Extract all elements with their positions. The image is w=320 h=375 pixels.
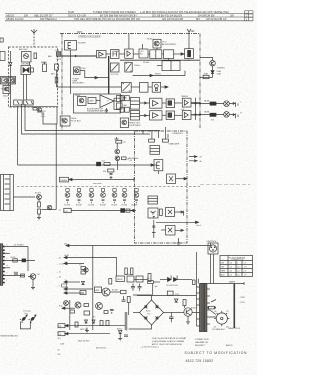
holder transistor 1 — [20, 315, 27, 323]
IF amp 1 — [2, 78, 8, 83]
drop wires from decoder bottom — [158, 131, 160, 139]
svg-text:3-4: 3-4 — [237, 275, 240, 277]
tuner labels — [1, 48, 56, 98]
output jack L — [224, 101, 230, 107]
svg-text:→ 4t: → 4t — [57, 271, 61, 274]
svg-text:— 4 floor RL history's 4: — 4 floor RL history's 4 — [140, 346, 159, 349]
svg-text:STEREO: STEREO — [217, 68, 225, 70]
tuner box bottom bus — [10, 106, 57, 108]
svg-text:BC238: BC238 — [65, 205, 71, 207]
input cap box R2 — [125, 107, 130, 112]
core lines — [202, 283, 204, 332]
bridge top wire — [133, 295, 152, 300]
svg-text:150: 150 — [147, 278, 150, 280]
feed wires into AF — [114, 98, 120, 110]
19kHz lamp driver block — [74, 67, 81, 75]
svg-text:MINIMUM VALUES: MINIMUM VALUES — [1, 335, 19, 338]
header row2 text — [6, 17, 227, 21]
svg-text:SUBJECT TO MODIFICATION: SUBJECT TO MODIFICATION — [185, 351, 248, 355]
matrix block — [140, 82, 148, 92]
feedback boxes — [117, 96, 123, 102]
bridge diode marks — [145, 306, 148, 309]
varicap diode — [9, 63, 12, 66]
svg-text:TREBLE: TREBLE — [181, 96, 189, 98]
preamp block R — [130, 111, 139, 121]
svg-text:REQUEST: REQUEST — [195, 345, 205, 347]
svg-text:→ 7: → 7 — [57, 286, 60, 288]
mid vertical feed — [152, 284, 154, 296]
svg-text:5µ3: 5µ3 — [64, 211, 67, 213]
oscillator box outline — [135, 131, 200, 245]
decoder bottom edge — [25, 104, 160, 131]
svg-text:BD237: BD237 — [191, 308, 197, 310]
osc bar 1 — [149, 139, 155, 142]
preset row labels — [65, 205, 138, 207]
svg-text:AFC: AFC — [51, 73, 56, 76]
wire meter to switches — [23, 75, 25, 101]
input cap box L2 — [125, 96, 130, 101]
svg-text:REG: REG — [127, 274, 131, 276]
mute wire — [5, 260, 35, 262]
deemphasis lock block — [152, 82, 160, 92]
muting transistor cluster — [33, 108, 37, 111]
right stack cap — [122, 296, 126, 301]
svg-text:ABL 3/2 DR 3/7: ABL 3/2 DR 3/7 — [34, 14, 53, 18]
power transistor BD — [184, 308, 192, 316]
bias network resistors — [81, 267, 86, 270]
collector wire — [171, 312, 184, 314]
bridge diamond — [140, 300, 164, 325]
selector link wires — [210, 310, 216, 317]
AFC wire down — [56, 70, 58, 87]
filter feed wire — [70, 50, 72, 94]
FM aerial stub box — [0, 38, 3, 42]
svg-text:STABILIZER: STABILIZER — [169, 143, 180, 146]
decouple cap + ground — [110, 174, 113, 179]
X2 out arrow — [175, 211, 184, 216]
wire — [142, 44, 144, 49]
switch stage 4 — [101, 189, 106, 204]
AGC transistor block — [3, 86, 10, 94]
tuning meter block — [21, 66, 31, 75]
decoder inner bus under row1 — [120, 59, 200, 61]
power lamp adjust label — [73, 79, 84, 85]
svg-text:MPX: MPX — [77, 31, 83, 34]
svg-text:ADJUSTMENT: ADJUSTMENT — [162, 43, 177, 46]
voltage list marks — [58, 332, 61, 356]
reg block B — [136, 276, 143, 282]
svg-text:DIN/CINCH: DIN/CINCH — [207, 241, 217, 243]
din wires down — [210, 254, 212, 284]
deemphasis hatch block 1 — [125, 62, 132, 72]
bridge bottom wire — [129, 325, 152, 329]
series resistor — [160, 209, 163, 216]
svg-text:BC148: BC148 — [112, 290, 118, 292]
pilot transistor block — [78, 97, 87, 106]
auto mute dashed line — [17, 185, 200, 187]
svg-text:AM 460kHz: AM 460kHz — [129, 157, 139, 160]
left rail transistor — [64, 301, 69, 306]
junction chain to line — [116, 161, 118, 170]
inner bottom bus — [43, 107, 57, 124]
svg-text:110: 110 — [58, 338, 61, 340]
switch stage 3 — [89, 189, 94, 204]
AFC series resistor — [55, 77, 58, 83]
speaker line 1 — [65, 325, 125, 327]
delay block — [116, 276, 125, 282]
preamp block L — [130, 98, 139, 110]
small transistor T1 — [84, 268, 88, 272]
svg-text:LS4(9)=SIGNAL SCALE ILLUMINAT: LS4(9)=SIGNAL SCALE ILLUMINAT — [152, 340, 185, 343]
decouple cap — [105, 108, 108, 112]
tuner dashed box — [9, 47, 58, 107]
wire border to amp2 — [128, 34, 130, 50]
tap arrows right — [189, 156, 197, 162]
svg-text:FM: FM — [56, 50, 59, 52]
svg-text:1 2: 1 2 — [244, 263, 246, 265]
IF line to tuner box — [18, 164, 158, 166]
svg-text:BY126 BY126: BY126 BY126 — [167, 285, 178, 287]
small parts row — [84, 304, 89, 307]
svg-text:96 kHz: 96 kHz — [143, 62, 149, 64]
svg-text:BAND: BAND — [41, 61, 47, 64]
aux diode — [175, 299, 178, 302]
series cap black on IF line — [97, 162, 101, 166]
series coil vertical — [148, 274, 151, 282]
svg-text:L COIL: L COIL — [185, 60, 192, 62]
svg-text:3-5: 3-5 — [230, 271, 233, 273]
right stack resistor — [121, 290, 127, 293]
osc bar 2 — [162, 139, 168, 142]
svg-text:TUNER/DET: TUNER/DET — [172, 133, 184, 135]
right column parts — [127, 297, 130, 303]
svg-text:110: 110 — [58, 354, 61, 356]
wire cluster to switch transistor — [41, 209, 47, 211]
IF transistor A — [115, 149, 120, 154]
out block R — [182, 111, 191, 120]
AFC output transistor — [30, 274, 36, 280]
MPX amp A1 — [97, 34, 201, 61]
din feed line — [66, 245, 211, 247]
svg-text:Hz ±1: Hz ±1 — [197, 225, 202, 227]
subcarrier big amp triangle — [100, 95, 114, 108]
svg-text:MPX: MPX — [57, 59, 62, 61]
wire lamp block right — [80, 71, 109, 78]
zener — [82, 282, 85, 285]
drop wire osc1 — [151, 131, 153, 140]
decoder box left edge — [61, 34, 63, 131]
mains top wire — [200, 283, 244, 285]
input filter block — [65, 41, 77, 51]
RF takeoff box — [55, 64, 59, 70]
supply wire row — [134, 279, 148, 281]
svg-text:4822 102 R20: 4822 102 R20 — [78, 341, 89, 343]
protection diode — [119, 331, 122, 334]
resistor chain down — [38, 202, 41, 207]
svg-text:BC238: BC238 — [76, 205, 82, 207]
tuner value labels — [41, 111, 46, 118]
revision box — [245, 11, 254, 21]
mute line right — [110, 291, 120, 293]
svg-text:2: 2 — [237, 263, 238, 265]
svg-text:TUNER PART FM/AM FM STEREO: TUNER PART FM/AM FM STEREO — [93, 10, 136, 14]
svg-text:BC238: BC238 — [122, 205, 128, 207]
svg-text:12dB: 12dB — [217, 74, 222, 76]
E block down wire — [157, 171, 159, 174]
38kHz feed line — [133, 75, 185, 77]
rectifier diode D1 — [168, 276, 172, 282]
below-line resistor — [108, 169, 114, 172]
reservoir cap — [169, 313, 174, 323]
svg-text:BC238: BC238 — [112, 205, 118, 207]
bottom centre value notes — [60, 341, 106, 350]
stub wire d — [5, 267, 10, 269]
svg-text:38kHz: 38kHz — [155, 74, 161, 76]
bias resistor right — [122, 157, 127, 160]
svg-text:4822: 4822 — [3, 96, 9, 98]
AF amp R — [150, 111, 162, 120]
document number — [186, 359, 214, 363]
bridge in wire left — [133, 312, 140, 314]
svg-text:BC238: BC238 — [89, 205, 95, 207]
svg-text:+ 5V TUNING: + 5V TUNING — [13, 244, 25, 246]
decoder box top edge — [60, 33, 200, 35]
svg-text:GP D/JACOB AX: GP D/JACOB AX — [206, 17, 227, 21]
main vertical rail — [92, 246, 94, 331]
svg-text:b: b — [7, 253, 8, 255]
FS label box — [58, 324, 65, 328]
svg-text:ADJUSTMENT: ADJUSTMENT — [128, 124, 142, 127]
tuning volt vertical — [55, 124, 57, 210]
tuning volt drop — [27, 247, 29, 272]
svg-text:AB DG: AB DG — [6, 14, 14, 18]
emitter wire down — [187, 316, 189, 322]
svg-text:BY114: BY114 — [117, 329, 122, 331]
svg-text:DELAY: DELAY — [117, 278, 124, 281]
svg-text:C75: C75 — [147, 314, 150, 316]
secondary winding — [204, 284, 207, 332]
osc line y222 — [156, 221, 199, 223]
svg-text:MV: MV — [196, 17, 200, 21]
svg-text:DS I/O ICH 3/8: DS I/O ICH 3/8 — [68, 14, 86, 18]
svg-text:LT LS: LT LS — [13, 272, 18, 274]
stub wire b — [5, 252, 10, 254]
tuning label box — [60, 177, 69, 182]
output jack R — [224, 112, 230, 118]
battery holder box — [20, 322, 30, 329]
svg-text:3/8: 3/8 — [230, 14, 234, 18]
svg-text:FL: FL — [65, 291, 67, 293]
svg-text:VOLTAGE ADJ: VOLTAGE ADJ — [212, 328, 225, 331]
vertical rail left — [69, 300, 71, 330]
small box mark row — [62, 284, 67, 287]
band indicator component — [43, 64, 47, 72]
holder transistor 2 — [29, 315, 36, 323]
header table bottom rule — [5, 20, 253, 22]
lt wire — [5, 275, 24, 277]
lt cap — [14, 273, 18, 276]
AF box bottom edge — [22, 104, 151, 134]
output transistor left — [75, 302, 81, 308]
svg-text:MAINS PLUG: MAINS PLUG — [229, 327, 241, 330]
wire to jack R — [191, 114, 224, 116]
switch stage 2 — [77, 189, 82, 204]
wire to VCO block — [133, 53, 139, 55]
svg-text:L: L — [241, 102, 242, 104]
relay contact box row — [10, 100, 57, 112]
rail verticals right — [124, 312, 126, 330]
svg-text:3-5: 3-5 — [237, 267, 240, 269]
oscillator circle symbol — [24, 54, 29, 59]
svg-text:127: 127 — [226, 311, 229, 313]
feed line 2 — [64, 258, 117, 277]
svg-text:+12: +12 — [123, 142, 126, 144]
svg-text:0,5W: 0,5W — [60, 344, 64, 346]
svg-text:LS4(7,8)=NIL INDICATOR ILLUMIN: LS4(7,8)=NIL INDICATOR ILLUMINAT — [152, 337, 187, 340]
flip-flop divider pair — [162, 61, 180, 71]
svg-text:4822 725 15852: 4822 725 15852 — [186, 359, 214, 363]
svg-text:auto mute: auto mute — [93, 182, 101, 185]
wire to coil — [174, 53, 185, 55]
svg-text:→ 3k: → 3k — [57, 258, 61, 260]
crystal block X2 — [166, 208, 175, 217]
pilot adj transistor block left — [60, 116, 70, 126]
AF amp L — [150, 98, 162, 108]
switch transistor — [47, 205, 52, 210]
tuning line — [69, 179, 135, 181]
connector pin labels — [7, 244, 41, 282]
svg-text:19kHz: 19kHz — [75, 95, 80, 97]
switch stage 6 — [122, 189, 127, 204]
svg-text:TA RE: TA RE — [204, 99, 210, 102]
wire A1 to phase det — [106, 53, 111, 55]
svg-text:39k: 39k — [103, 171, 106, 173]
main regulator transistor — [102, 288, 110, 296]
amp block — [95, 287, 102, 293]
X1 out wire — [176, 178, 188, 180]
svg-text:844 R20 1k5: 844 R20 1k5 — [96, 348, 106, 350]
secondary taps right — [207, 289, 210, 324]
svg-text:1-4: 1-4 — [230, 267, 233, 269]
IF transistor B — [115, 156, 120, 161]
svg-text:50: 50 — [58, 350, 60, 352]
svg-text:→ 8 4µ: → 8 4µ — [57, 306, 64, 308]
VCO 76kHz block — [110, 63, 119, 72]
input cap box R1 — [120, 107, 124, 112]
svg-text:→ 5k: → 5k — [57, 277, 61, 279]
AF wires R — [140, 114, 150, 116]
svg-text:TEL/TEA: TEL/TEA — [218, 10, 229, 14]
svg-text:19kHz: 19kHz — [134, 65, 140, 67]
keyboard out wire — [14, 196, 36, 198]
base resistor — [183, 300, 186, 306]
gang block — [80, 291, 86, 295]
svg-text:BC238: BC238 — [100, 205, 106, 207]
header title row text — [68, 10, 248, 21]
IF amp pair box — [1, 77, 16, 85]
subject to modification — [185, 351, 248, 355]
svg-text:ADJUSTMENT: ADJUSTMENT — [73, 81, 84, 84]
arrow into E block — [151, 164, 154, 166]
det box — [31, 68, 34, 72]
bias feed top — [116, 144, 118, 150]
VCO divider block — [139, 49, 148, 58]
svg-text:2-5: 2-5 — [230, 275, 233, 277]
svg-text:MAINS: MAINS — [229, 280, 236, 283]
svg-text:BY DR BW RW A/N D4 GR/JH: BY DR BW RW A/N D4 GR/JH — [100, 14, 137, 18]
reg small box — [167, 291, 173, 295]
series resistor on IF line — [104, 163, 110, 166]
svg-text:1-4: 1-4 — [237, 271, 240, 273]
mixer input block — [0, 52, 5, 61]
switch — [211, 300, 216, 303]
right end tick — [133, 178, 135, 182]
osc trim resistor — [34, 53, 37, 59]
filter resistor — [148, 281, 154, 284]
amp small block — [88, 98, 96, 104]
svg-text:D4 GR/JH BV: D4 GR/JH BV — [198, 14, 215, 18]
svg-text:CONNECTION: CONNECTION — [195, 339, 209, 341]
AM antenna symbol — [31, 29, 37, 33]
svg-text:L+R BFO MOTOROLA ADJUST WS TE: L+R BFO MOTOROLA ADJUST WS TELEFUNKEN AD… — [140, 10, 219, 14]
AM antenna lead — [33, 33, 35, 47]
FM input connector — [57, 52, 62, 57]
AM line — [71, 210, 136, 212]
svg-text:DIAGRAM ON: DIAGRAM ON — [195, 341, 208, 344]
supply rail — [137, 295, 197, 297]
minimum values note — [1, 335, 19, 338]
phase comparator block — [148, 208, 158, 218]
svg-text:CAR: CAR — [123, 104, 128, 107]
svg-text:SUBCARRIER AMPL: SUBCARRIER AMPL — [87, 110, 105, 113]
svg-text:VCO 76k: VCO 76k — [111, 74, 118, 76]
mute series cap — [22, 259, 26, 262]
mains cable double line — [233, 284, 235, 329]
IF amp 2 — [9, 78, 15, 83]
diode pair bottom — [85, 320, 96, 323]
bias resistor — [109, 279, 112, 285]
mute transistor cluster — [37, 195, 42, 200]
pilot amp A2 — [125, 49, 134, 58]
crystal block X1 — [167, 174, 176, 184]
main MPX bus — [62, 55, 97, 57]
switch stage 5 — [112, 189, 117, 204]
header table middle rule — [5, 16, 253, 18]
VCO adjust block — [153, 39, 161, 50]
AF wires L — [140, 102, 150, 104]
rectifier diode D2 — [174, 276, 178, 282]
svg-text:10.7: 10.7 — [102, 161, 106, 163]
svg-text:DR: DR — [24, 14, 28, 18]
header table top rule — [5, 13, 253, 15]
feed line 6 — [64, 292, 84, 294]
svg-text:← 220V: ← 220V — [238, 297, 246, 299]
deemphasis hatch block 2 — [121, 82, 131, 92]
svg-text:TRF DEL MOTORE BL PPI AN GL RO: TRF DEL MOTORE BL PPI AN GL ROULM BR PPI… — [74, 17, 140, 21]
svg-text:3-5: 3-5 — [230, 263, 233, 265]
svg-text:(xx): (xx) — [25, 313, 28, 315]
AF bus vertical — [195, 98, 197, 121]
meter symbol — [23, 68, 26, 73]
svg-text:TUNING: TUNING — [60, 180, 68, 182]
svg-text:110: 110 — [214, 311, 217, 313]
38kHz coil component — [185, 49, 194, 59]
switch stage 7 — [134, 189, 139, 204]
scattered note row above — [140, 346, 159, 349]
svg-text:a: a — [7, 244, 8, 246]
svg-text:4700: 4700 — [175, 294, 179, 296]
bus arrow — [75, 55, 78, 58]
